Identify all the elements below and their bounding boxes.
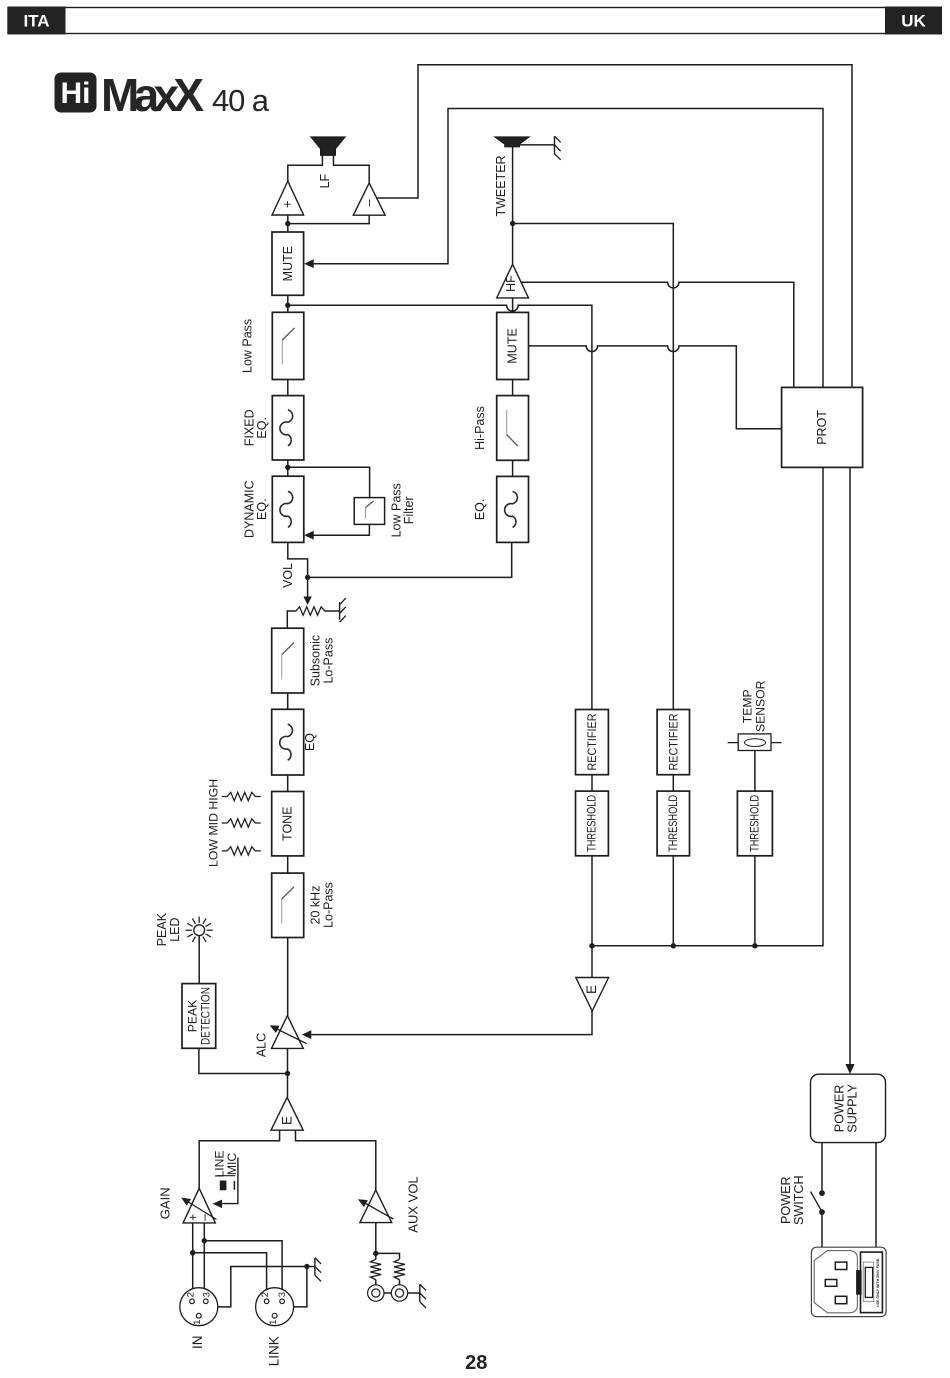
wire TONE to 20kHz [287,856,289,873]
AC inlet pin E [825,1280,837,1287]
label PEAK LED [155,912,182,946]
wire tweeter to HF [512,147,514,264]
svg-text:1: 1 [268,1320,279,1325]
junction bus node 1 [589,943,594,948]
wire pot to ground [325,610,339,612]
logo MaxX [101,69,204,121]
svg-text:LF: LF [318,173,332,188]
block EQ HF [497,476,529,542]
temp sensor element [728,734,782,751]
wire threshold2 down [672,856,674,946]
wire RCA link [384,1292,391,1294]
op-amp AUX VOL [358,1190,393,1223]
connector XLR IN [180,1288,218,1326]
header band [8,8,941,34]
junction LF output node [285,221,290,226]
header tab UK [886,7,942,34]
op-amp HF [497,264,529,298]
resistor RCA right [394,1259,405,1285]
wire rectifier1 to threshold1 [591,775,593,791]
AC inlet pin N [835,1296,847,1303]
block MUTE HF [497,312,529,379]
wire MUTE HF to Hi-Pass [512,380,514,396]
wire LF speaker + terminal [288,155,323,181]
junction ALC output node [285,1071,290,1076]
svg-text:EQ.: EQ. [255,417,269,439]
wire LED to peak detection [198,936,200,984]
block RECTIFIER 2 [657,710,689,775]
label LOW MID HIGH [207,779,221,867]
wire bus to sigma2 [591,946,593,978]
block THRESHOLD 3 [737,791,772,856]
wire HF to MUTE HF [512,298,514,313]
label AUX VOL [406,1176,421,1232]
speaker LF woofer [311,137,345,155]
block DYNAMIC EQ [272,476,304,542]
block RECTIFIER 1 [576,710,609,775]
wire MUTE LF to Low Pass [287,295,289,312]
svg-text:THRESHOLD: THRESHOLD [748,795,761,852]
svg-text:EQ: EQ [303,733,317,751]
label Low Pass Filter [389,483,416,537]
block PROT [782,387,863,467]
resistor LOW [222,847,261,855]
wire VOL node vertical [307,573,309,577]
ground tweeter [555,136,561,160]
speaker tweeter [495,137,529,147]
label TEMP SENSOR [741,680,768,732]
svg-text:ALC: ALC [254,1033,268,1057]
op-amp LF - [353,183,385,215]
wire LF speaker - terminal [334,155,370,183]
AC inlet IEC shape [814,1251,857,1313]
svg-text:3: 3 [201,1292,212,1297]
wire Dynamic EQ to VOL node [288,542,308,573]
svg-text:28: 28 [465,1352,487,1374]
svg-text:IN: IN [190,1336,205,1350]
wire summing bus to PROT [592,467,823,945]
svg-text:Low Pass: Low Pass [241,319,255,373]
svg-text:THRESHOLD: THRESHOLD [667,795,680,852]
switch LINE/MIC [212,1150,239,1203]
op-amp GAIN [181,1188,216,1223]
svg-text:SUPPLY: SUPPLY [845,1083,859,1132]
block TONE [272,792,304,856]
svg-text:Lo-Pass: Lo-Pass [321,882,335,928]
summing amp sigma2 [576,978,609,1012]
wire VOL wiper arrow [303,577,311,605]
connector RCA 1 [368,1285,384,1301]
block POWER SUPPLY [811,1074,886,1142]
svg-text:LOW MID HIGH: LOW MID HIGH [207,779,221,867]
svg-text:3: 3 [277,1292,288,1297]
wire LF + output to mute [287,215,289,232]
label GAIN [158,1187,173,1219]
svg-text:+: + [279,200,294,208]
wire RCA to ground [408,1292,420,1294]
arrowhead into DYNAMIC EQ [304,531,314,540]
svg-text:EQ.: EQ. [255,498,269,520]
wire threshold1 down [591,856,593,946]
svg-text:DETECTION: DETECTION [198,987,212,1045]
wire AUX node to right resistor [376,1253,400,1259]
block THRESHOLD 2 [657,791,689,856]
wire Fixed EQ to Dynamic EQ [287,460,289,476]
block FIXED EQ [272,396,304,460]
header tab ITA [8,7,65,34]
svg-text:SENSOR: SENSOR [753,680,767,732]
svg-text:UK: UK [901,12,926,31]
wire ALC control from sigma2 [311,1011,592,1035]
wire LF mute control [313,109,823,388]
switch POWER SWITCH [811,1190,825,1215]
junction bus node 2 [671,943,676,948]
wire temp sensor to threshold3 [754,751,756,792]
wire LF post-mute to rectifier 1 (with hop) [288,305,592,709]
wire sigma1 right leg to AUX VOL [296,1130,376,1190]
label EQ mid [303,733,317,751]
svg-text:ITA: ITA [23,12,49,31]
svg-text:Hi-Pass: Hi-Pass [473,406,487,450]
label Hi-Pass [473,406,487,450]
junction bus node 3 [752,943,757,948]
wire IN pin1 to ground [218,1267,307,1307]
label IN [190,1336,205,1350]
svg-text:LED: LED [168,917,182,941]
wire EQ to TONE [287,775,289,792]
wire LF - output to node [290,215,369,223]
logo 40 a [212,83,270,118]
label EQ HF [473,499,487,521]
junction VOL node [305,575,310,580]
wire VOL node to HF chain [308,542,512,577]
junction IN pin3 node [202,1238,207,1243]
wire tweeter to ground [519,144,555,146]
resistor RCA left [370,1259,381,1285]
wire rectifier2 to threshold2 [672,775,674,791]
ground RCA [420,1284,426,1308]
AC inlet pin L [835,1262,847,1269]
wire switch to inlet [821,1212,823,1247]
arrowhead into MUTE LF [304,259,314,268]
svg-text:TWEETER: TWEETER [494,155,508,216]
wire Subsonic to EQ [287,693,289,709]
AC inlet outer [811,1247,886,1316]
op-amp LF + [272,181,304,215]
label ALC [254,1033,268,1057]
arrowhead into power supply [845,1064,854,1074]
svg-text:MaxX: MaxX [101,69,204,121]
svg-text:E: E [280,1116,295,1125]
wire MUTE HF to PROT (with hops) [529,346,782,429]
svg-text:SWITCH: SWITCH [792,1175,806,1225]
arrowhead into GAIN [213,1200,223,1208]
label FIXED EQ. [242,409,269,446]
wire GAIN + to XLR IN pin2 [192,1223,194,1289]
summing amp sigma1 [271,1097,303,1130]
wire tweeter node to rectifier 2 [513,224,674,710]
label POWER SWITCH [779,1175,806,1225]
fuse holder [856,1252,882,1313]
svg-text:Lo-Pass: Lo-Pass [321,638,335,684]
svg-text:USE ONLY WITH 250V FUSE: USE ONLY WITH 250V FUSE [876,1258,880,1307]
resistor HIGH [222,792,261,800]
wire AUX VOL to RCA node [375,1223,377,1260]
label VOL [281,563,295,588]
connector XLR LINK [256,1288,294,1326]
block Subsonic Lo-Pass [272,628,304,693]
block THRESHOLD 1 [576,791,609,856]
label DYNAMIC EQ. [242,480,269,538]
svg-text:HF: HF [504,275,518,292]
svg-text:LINK: LINK [267,1336,282,1366]
junction tweeter node [510,221,515,226]
block Low Pass Filter [354,498,384,525]
svg-text:GAIN: GAIN [158,1187,173,1219]
svg-text:RECTIFIER: RECTIFIER [585,713,599,770]
svg-text:1: 1 [192,1320,203,1325]
page number 28 [465,1352,487,1374]
wire threshold3 down [754,856,756,946]
wire power supply to inlet right [875,1143,877,1248]
wire GAIN - to XLR IN pin3 [203,1223,205,1289]
svg-text:2: 2 [185,1292,196,1297]
op-amp ALC [270,1016,307,1049]
wire power supply to switch [821,1143,823,1194]
arrowhead into ALC [302,1030,312,1039]
junction Fixed EQ output node [285,465,290,470]
junction LF post-mute node [285,303,290,308]
wire HF sense to PROT (with hop) [521,282,794,387]
wire Low Pass Filter to Dynamic EQ [313,524,369,535]
wire ALC to sigma1 [287,1048,289,1097]
block MUTE LF [272,232,304,295]
label Low Pass [241,319,255,373]
svg-text:RECTIFIER: RECTIFIER [666,713,680,770]
block PEAK DETECTION [182,984,216,1049]
wire 20kHz to ALC [287,938,289,1016]
label LF [318,173,332,188]
ground VOL pot [340,598,346,622]
potentiometer VOL [287,607,326,628]
label Subsonic Lo-Pass [309,635,336,686]
svg-text:PROT: PROT [815,410,829,445]
svg-text:MIC: MIC [225,1153,239,1176]
svg-text:Hi: Hi [61,77,91,110]
wire pin2 node to LINK pin2 [193,1253,267,1290]
connector RCA 2 [391,1285,407,1301]
wire pin3 node to LINK pin3 [204,1241,282,1290]
svg-text:VOL: VOL [281,563,295,588]
wire LINK pin1 to ground [294,1267,307,1307]
block Low Pass [272,312,304,379]
wire PROT to power supply [849,467,851,1065]
wire node to Low Pass Filter [290,467,370,497]
wire ground stub [307,1266,315,1268]
wire sigma1 left leg to GAIN [199,1130,279,1188]
svg-text:Filter: Filter [402,496,416,524]
svg-text:E: E [584,985,599,994]
block Hi-Pass [497,396,529,461]
resistor MID [222,819,261,827]
svg-text:2: 2 [260,1292,271,1297]
ground XLR [315,1258,321,1282]
wire Low Pass to Fixed EQ [287,380,289,396]
wire LF - sense to PROT (outer top path) [377,65,852,388]
block 20 kHz Lo-Pass [272,873,304,937]
junction IN pin2 node [190,1250,195,1255]
svg-text:EQ.: EQ. [473,499,487,521]
logo Hi box [55,73,96,112]
svg-text:AUX VOL: AUX VOL [406,1176,421,1232]
label LINK [267,1336,282,1366]
svg-text:THRESHOLD: THRESHOLD [586,795,599,852]
label 20 kHz Lo-Pass [309,882,336,928]
svg-text:TONE: TONE [281,806,295,841]
svg-text:40 a: 40 a [212,83,270,118]
wire Hi-Pass to EQ HF [512,460,514,476]
LED PEAK [186,917,213,942]
svg-text:MUTE: MUTE [281,246,295,281]
block EQ mid [272,709,304,775]
wire peak detection to ALC node [199,1048,288,1073]
label TWEETER [494,155,508,216]
svg-text:MUTE: MUTE [506,328,520,363]
junction AUX node [373,1251,378,1256]
svg-text:–: – [361,199,376,207]
junction XLR ground node [304,1264,309,1269]
